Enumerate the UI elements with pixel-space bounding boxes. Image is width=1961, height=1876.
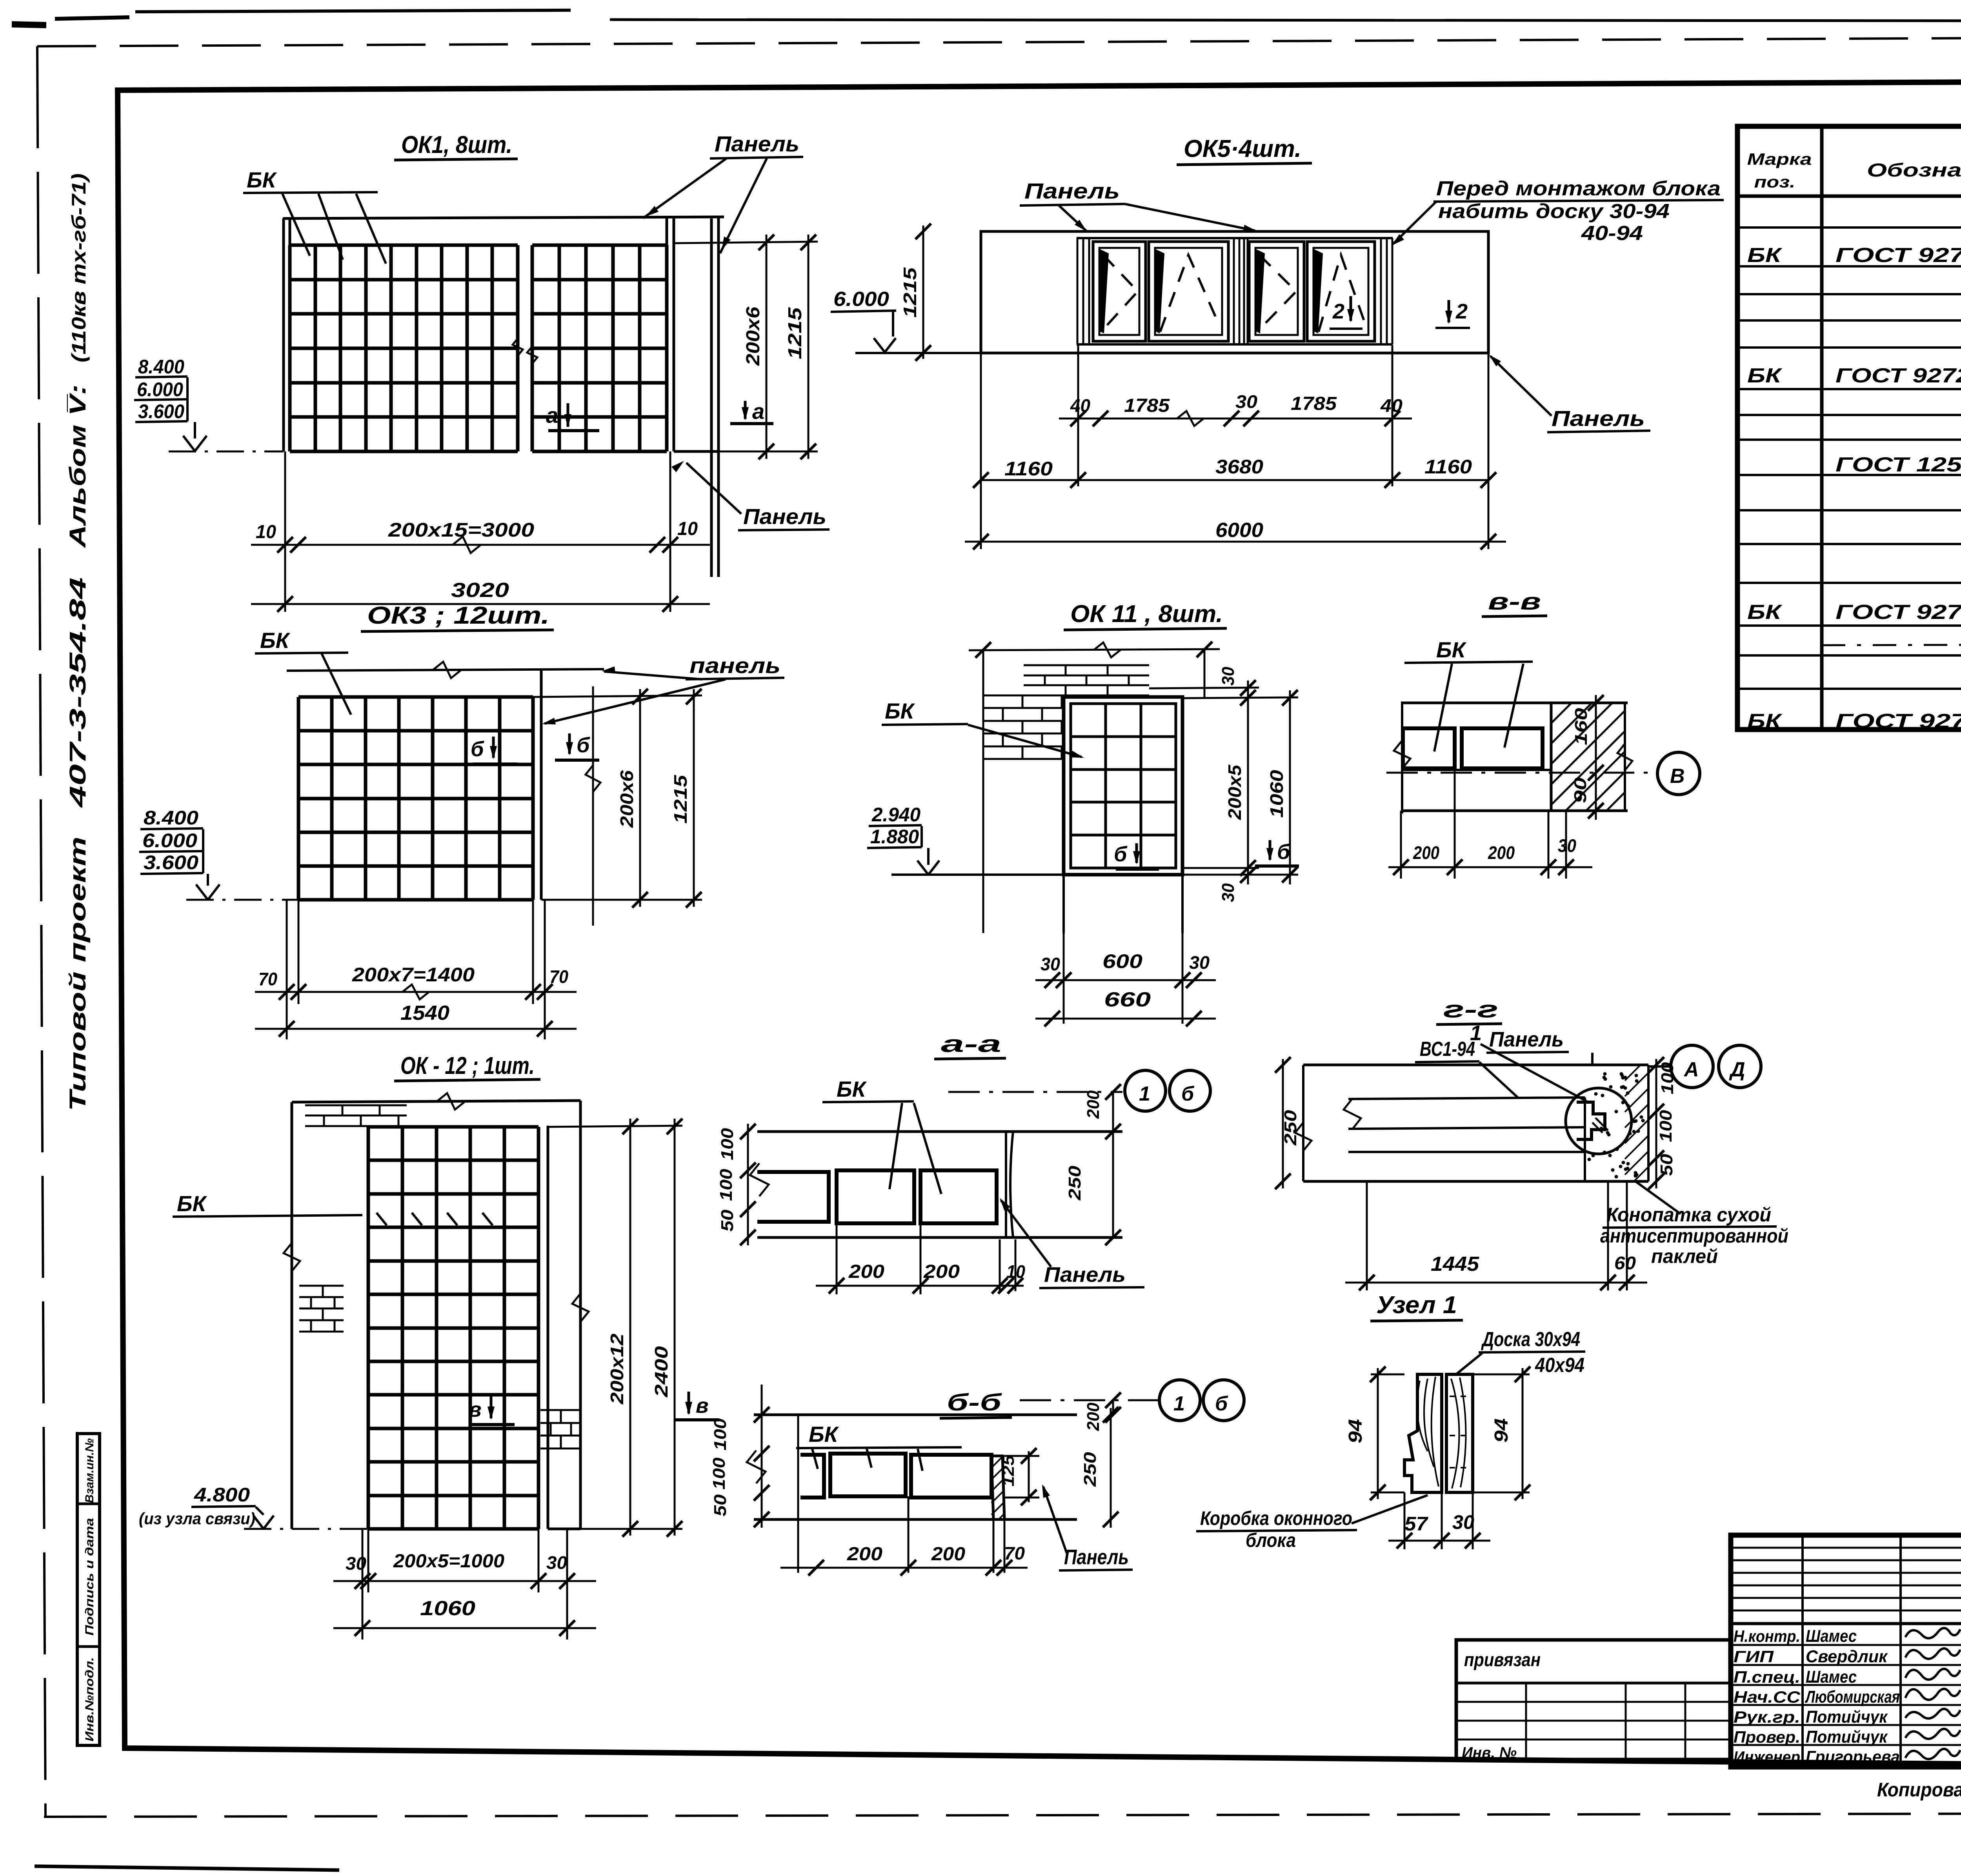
svg-text:ОК 11 , 8шт.: ОК 11 , 8шт.: [1070, 600, 1223, 628]
а-а left dim line 100 100 50: [747, 1124, 749, 1245]
svg-text:407-3-354.84: 407-3-354.84: [65, 577, 91, 808]
svg-text:30: 30: [1235, 391, 1257, 412]
доска leader: [1455, 1353, 1482, 1375]
узел 1 dim 94 right: [1522, 1368, 1524, 1499]
svg-text:БК: БК: [837, 1077, 867, 1101]
svg-text:1215: 1215: [670, 774, 691, 824]
svg-text:1: 1: [1470, 1021, 1482, 1045]
svg-text:2400: 2400: [651, 1346, 671, 1397]
svg-text:б: б: [1181, 1083, 1195, 1105]
svg-text:П.спец.: П.спец.: [1734, 1668, 1800, 1686]
svg-text:БК: БК: [1747, 364, 1783, 387]
svg-text:привязан: привязан: [1464, 1650, 1541, 1670]
svg-text:70: 70: [1004, 1543, 1025, 1563]
svg-text:200: 200: [1413, 842, 1439, 863]
svg-text:Рук.гр.: Рук.гр.: [1734, 1708, 1800, 1726]
OK5 dim row 40 1785 30 1785 40: [1059, 418, 1412, 420]
OK12 brick hatch right: [540, 1422, 580, 1424]
svg-text:Типовой проект: Типовой проект: [65, 837, 91, 1111]
в-в glass block 2 in plan: [1462, 728, 1543, 768]
svg-text:Д: Д: [1729, 1058, 1745, 1081]
OK1 bottom extension lines: [284, 451, 286, 612]
OK11 sill line left of window: [891, 873, 1064, 876]
OK12 glass block grid 5x12: [367, 1127, 370, 1529]
а-а glass block 3: [920, 1170, 997, 1223]
svg-text:30: 30: [1219, 883, 1238, 902]
OK12 dim line 1060: [333, 1627, 596, 1629]
spec table row lines: [1737, 195, 1961, 198]
svg-text:3020: 3020: [451, 579, 509, 602]
svg-text:100: 100: [717, 1168, 736, 1201]
svg-text:100: 100: [718, 1128, 737, 1160]
svg-text:70: 70: [258, 969, 277, 989]
OK11 right top extension: [1204, 649, 1206, 697]
svg-text:40х94: 40х94: [1535, 1354, 1584, 1377]
OK11 window inner rect: [1071, 704, 1176, 868]
svg-text:ГОСТ 9272-81: ГОСТ 9272-81: [1835, 710, 1961, 733]
OK3 dim line 200x6: [639, 689, 641, 907]
OK11 dim line 660: [1035, 1018, 1216, 1020]
OK3 dim line 1215: [693, 689, 695, 907]
svg-text:ГОСТ 9272-81: ГОСТ 9272-81: [1835, 364, 1961, 387]
svg-text:ОК - 12 ; 1шт.: ОК - 12 ; 1шт.: [400, 1052, 535, 1079]
OK1 Панель bottom leader: [686, 463, 741, 514]
г-г left edge: [1302, 1065, 1304, 1181]
OK5 Панель bottom leader: [1490, 356, 1552, 416]
svg-text:а: а: [546, 403, 558, 428]
а-а left break zigzag: [750, 1163, 769, 1196]
svg-text:250: 250: [1081, 1452, 1100, 1487]
б-б dim 125 right of wedge: [1028, 1451, 1030, 1502]
svg-text:100: 100: [1658, 1062, 1677, 1094]
svg-text:100: 100: [1656, 1110, 1675, 1142]
г-г sill board lines: [1348, 1097, 1585, 1099]
svg-text:30: 30: [1041, 954, 1060, 974]
а-а dim 10 at packing: [999, 1239, 1001, 1291]
svg-text:Панель: Панель: [1489, 1028, 1564, 1051]
svg-text:200: 200: [1084, 1090, 1103, 1119]
svg-text:а: а: [752, 399, 764, 424]
svg-text:200: 200: [931, 1544, 965, 1565]
б-б dim 200 near circles: [1112, 1400, 1114, 1415]
svg-text:БК: БК: [809, 1422, 839, 1447]
в-в glass block 1 in plan: [1403, 728, 1455, 768]
г-г top line: [1303, 1064, 1648, 1066]
svg-text:60: 60: [1614, 1253, 1636, 1273]
ВС1-94 leader: [1479, 1062, 1519, 1098]
OK1 right dimension extension lines: [674, 242, 818, 243]
в-в panel left edge: [1401, 703, 1403, 813]
OK12 ground dash line: [244, 1528, 368, 1530]
svg-text:Узел 1: Узел 1: [1376, 1292, 1457, 1319]
OK5 lower extension lines: [1077, 345, 1079, 486]
svg-text:30: 30: [546, 1552, 567, 1573]
svg-text:в: в: [469, 1398, 482, 1421]
svg-text:6000: 6000: [1215, 519, 1263, 542]
svg-text:ОК1, 8шт.: ОК1, 8шт.: [401, 131, 512, 158]
svg-text:Панель: Панель: [1044, 1263, 1126, 1286]
svg-text:Инв. №: Инв. №: [1462, 1744, 1517, 1761]
г-г centreline to circles А Д: [1648, 1065, 1670, 1068]
OK5 Панель leaders: [1059, 206, 1086, 231]
svg-text:Н.контр.: Н.контр.: [1734, 1627, 1800, 1645]
svg-text:2: 2: [1332, 300, 1344, 323]
scan artifact: top edge streaks: [12, 24, 46, 25]
а-а dim 200 near circles: [1112, 1092, 1114, 1132]
г-г Панель leader: [1591, 1053, 1594, 1065]
б-б left break zigzag: [747, 1450, 766, 1483]
svg-text:8.400: 8.400: [138, 356, 184, 378]
OK11 section mark б outside right: [1269, 840, 1272, 860]
svg-text:6.000: 6.000: [833, 288, 889, 311]
б-б bottom extension lines: [797, 1415, 799, 1573]
а-а circle б: [1170, 1070, 1210, 1111]
OK11 dim line 1060: [1289, 690, 1291, 884]
OK1 dim line 3020: [251, 603, 710, 605]
OK12 bottom extension lines: [367, 1529, 369, 1592]
svg-text:1785: 1785: [1291, 393, 1337, 414]
OK5 dim 1215 left: [922, 226, 924, 359]
svg-text:1160: 1160: [1004, 458, 1053, 480]
svg-text:1060: 1060: [1266, 770, 1287, 818]
svg-text:б: б: [577, 733, 590, 757]
svg-text:100: 100: [711, 1418, 730, 1450]
OK1 seam break marks: [513, 338, 523, 356]
OK11 dim line 30 200x5 30: [1247, 681, 1249, 884]
svg-text:(из узла связи): (из узла связи): [139, 1509, 255, 1528]
OK1 dim line 200x15=3000 with 10 10: [251, 544, 710, 546]
OK11 brick hatch left of window: [983, 707, 1064, 709]
svg-text:Перед монтажом блока: Перед монтажом блока: [1436, 177, 1721, 200]
svg-text:1540: 1540: [400, 1002, 449, 1024]
OK11 БК leader: [968, 725, 1082, 757]
svg-text:Конопатка сухой: Конопатка сухой: [1606, 1204, 1771, 1226]
OK5 sash 4 (top-hung, dashes): [1307, 242, 1375, 341]
svg-text:94: 94: [1345, 1419, 1366, 1443]
svg-text:1215: 1215: [785, 307, 806, 359]
spec table dash artifact 2: [1822, 644, 1961, 645]
svg-text:10: 10: [677, 519, 698, 539]
svg-text:БК: БК: [1747, 710, 1783, 733]
svg-text:200х15=3000: 200х15=3000: [388, 519, 534, 541]
svg-text:3.600: 3.600: [144, 852, 198, 873]
svg-text:БК: БК: [1436, 637, 1467, 662]
OK1 bottom panel line right of grid: [674, 450, 719, 453]
OK5 centre mullion: [1233, 238, 1235, 344]
г-г circle А: [1671, 1045, 1713, 1088]
svg-text:Панель: Панель: [1024, 178, 1120, 203]
в-в panel bottom line: [1401, 810, 1628, 812]
OK12 БК cell ticks: [377, 1213, 387, 1225]
OK12 panel bottom right segment: [548, 1528, 580, 1530]
б-б panel bottom line: [754, 1518, 1077, 1521]
svg-text:ГОСТ 12506-81: ГОСТ 12506-81: [1835, 453, 1961, 476]
OK12 section mark в outside: [688, 1392, 690, 1414]
а-а centreline dash-dot: [948, 1091, 1122, 1093]
в-в hatched wall: [1550, 703, 1553, 811]
svg-text:Доска 30х94: Доска 30х94: [1481, 1328, 1580, 1351]
svg-text:Свердлик: Свердлик: [1806, 1647, 1888, 1666]
OK5 dim row 6000: [965, 541, 1506, 543]
г-г right dim line 100 100 50: [1655, 1059, 1657, 1188]
OK3 right panel double line: [540, 669, 543, 900]
svg-text:1215: 1215: [900, 267, 920, 318]
а-а circle 1: [1125, 1070, 1166, 1111]
в-в bottom dim line 200 200 30: [1388, 866, 1592, 868]
OK12 left panel edge: [291, 1102, 293, 1529]
svg-text:панель: панель: [689, 653, 780, 678]
OK11 window outer rect: [1064, 697, 1182, 875]
svg-text:Панель: Панель: [715, 131, 799, 156]
OK11 below-window wall lines: [1062, 875, 1065, 933]
OK3 section mark б outside: [568, 733, 571, 754]
OK11 right extension lines: [1149, 688, 1259, 688]
svg-text:Подпись и дата: Подпись и дата: [83, 1518, 96, 1636]
svg-text:50: 50: [1657, 1154, 1676, 1176]
svg-text:ОК3 ; 12шт.: ОК3 ; 12шт.: [367, 602, 549, 629]
а-а right dim line 250: [1112, 1132, 1114, 1237]
г-г circle Д: [1719, 1045, 1761, 1088]
svg-text:200х12: 200х12: [607, 1334, 627, 1405]
OK3 panel top line: [287, 669, 604, 671]
svg-text:а-а: а-а: [941, 1031, 1001, 1057]
OK12 right panel edge: [579, 1101, 582, 1529]
specification table outer border: [1737, 126, 1961, 730]
svg-text:А: А: [1683, 1058, 1699, 1081]
конопатка leader: [1635, 1181, 1681, 1214]
OK1 grid left edge double line: [282, 218, 285, 451]
svg-text:Альбом V̅:: Альбом V̅:: [65, 384, 91, 549]
б-б centreline dash-dot to circles: [1020, 1399, 1158, 1401]
svg-text:3680: 3680: [1215, 456, 1263, 478]
а-а bottom extension lines: [836, 1223, 838, 1294]
svg-text:б: б: [1277, 840, 1291, 864]
svg-text:250: 250: [1065, 1165, 1084, 1201]
OK5 window top and bottom frame lines: [1077, 237, 1393, 239]
svg-text:Провер.: Провер.: [1734, 1728, 1800, 1746]
OK3 right extension lines: [533, 695, 702, 697]
svg-text:б: б: [1215, 1392, 1228, 1415]
svg-text:Панель: Панель: [1064, 1545, 1129, 1569]
spec table column lines: [1820, 126, 1824, 730]
svg-text:100: 100: [709, 1457, 729, 1490]
г-г bottom extension lines: [1366, 1181, 1368, 1290]
svg-text:600: 600: [1102, 950, 1142, 972]
г-г packing dotted zone: [1584, 1097, 1586, 1181]
OK1 grid right edge double line: [673, 218, 675, 451]
svg-text:ГИП: ГИП: [1734, 1647, 1774, 1666]
привязан table outline: [1456, 1640, 1731, 1760]
svg-text:Панель: Панель: [1552, 406, 1645, 431]
а-а glass block 2: [837, 1170, 914, 1223]
узел 1 доска profile (right piece): [1446, 1374, 1473, 1492]
svg-text:б: б: [1114, 842, 1128, 866]
б-б glass block 3: [911, 1455, 991, 1498]
svg-text:Шамес: Шамес: [1806, 1627, 1857, 1646]
svg-text:ОК5·4шт.: ОК5·4шт.: [1184, 135, 1301, 162]
OK5 window jamb lines left: [1077, 238, 1079, 344]
OK5 sash 3 (side-hung, dashes): [1249, 242, 1304, 341]
а-а bottom dim line 200 200: [816, 1285, 1024, 1287]
б-б panel top line: [754, 1414, 1077, 1416]
svg-text:г-г: г-г: [1443, 996, 1498, 1023]
OK1 section mark a outside: [744, 401, 747, 419]
title block outline: [1731, 1535, 1961, 1767]
svg-text:Взам.ин.№: Взам.ин.№: [83, 1438, 96, 1503]
а-а panel end edge and packing: [1005, 1132, 1007, 1237]
OK12 dim line 2400: [674, 1119, 676, 1536]
г-г sill left break: [1344, 1099, 1361, 1129]
б-б circle 1: [1159, 1380, 1200, 1421]
svg-text:200: 200: [1084, 1402, 1103, 1431]
svg-text:40-94: 40-94: [1581, 222, 1643, 245]
svg-text:в-в: в-в: [1488, 588, 1541, 615]
OK3 панель leaders: [604, 671, 702, 679]
left bottom strip box: [77, 1434, 100, 1745]
svg-text:БК: БК: [1747, 244, 1783, 267]
svg-text:200: 200: [1488, 842, 1515, 863]
svg-text:6.000: 6.000: [142, 830, 197, 852]
OK12 dim line 30 200x5=1000 30: [333, 1580, 596, 1582]
в-в dim line 160 90: [1595, 695, 1597, 820]
OK3 dim line 1540: [255, 1028, 577, 1030]
svg-text:660: 660: [1104, 988, 1151, 1011]
svg-text:паклей: паклей: [1651, 1245, 1718, 1267]
svg-text:4.800: 4.800: [194, 1484, 250, 1506]
outer dashed border: [37, 36, 1961, 46]
svg-text:БК: БК: [1747, 601, 1783, 624]
scan artifact: bottom-left edge streak: [35, 1866, 339, 1870]
г-г bottom line: [1303, 1180, 1648, 1183]
а-а glass block cut at left: [757, 1172, 829, 1222]
OK11 glass block grid 3x5: [1070, 704, 1072, 868]
OK1 panel right edge double line: [710, 218, 713, 577]
OK1 panel top edge: [283, 217, 724, 218]
svg-text:1060: 1060: [420, 1597, 475, 1620]
svg-text:200: 200: [923, 1261, 960, 1282]
strip second vertical line: [123, 1434, 126, 1741]
svg-text:поз.: поз.: [1754, 173, 1795, 191]
svg-text:10: 10: [256, 522, 276, 542]
OK3 dim line 70 200x7=1400 70: [255, 991, 577, 993]
OK1 elevation connector and arrow: [186, 377, 189, 421]
г-г right edge: [1647, 1065, 1650, 1181]
svg-text:90: 90: [1571, 777, 1590, 803]
svg-text:Коробка оконного: Коробка оконного: [1200, 1507, 1352, 1529]
б-б circle б: [1203, 1380, 1244, 1421]
svg-text:8.400: 8.400: [144, 807, 198, 829]
а-а panel bottom line: [757, 1236, 1122, 1239]
svg-text:1: 1: [1139, 1083, 1150, 1105]
svg-text:250: 250: [1281, 1110, 1300, 1146]
svg-text:Любомирская: Любомирская: [1805, 1687, 1900, 1707]
svg-text:200х5: 200х5: [1224, 764, 1245, 820]
привязан column lines: [1525, 1683, 1527, 1760]
OK12 grid right double line: [547, 1126, 549, 1529]
а-а БК leader slants: [890, 1103, 902, 1189]
svg-text:57: 57: [1404, 1513, 1428, 1535]
svg-text:1160: 1160: [1424, 456, 1472, 478]
г-г left dim line 250: [1282, 1059, 1284, 1188]
svg-text:200: 200: [847, 1544, 882, 1565]
svg-text:30: 30: [346, 1553, 366, 1574]
strip divider 1: [77, 1503, 100, 1505]
OK11 dim line 30 600 30: [1035, 979, 1216, 981]
OK11 bottom extension lines: [1063, 933, 1065, 1024]
svg-text:50: 50: [718, 1209, 737, 1232]
svg-text:БК: БК: [260, 628, 291, 653]
OK12 right extension lines: [548, 1126, 682, 1127]
б-б right dim line 250: [1110, 1408, 1112, 1528]
OK3 section trace line б-б: [592, 686, 594, 926]
б-б left dim line 100 100 50: [761, 1385, 763, 1528]
strip divider 2: [77, 1645, 100, 1648]
узел 1 bottom dim 57 30: [1404, 1492, 1406, 1549]
svg-text:б: б: [471, 737, 484, 761]
svg-text:125: 125: [999, 1455, 1017, 1487]
а-а Панель leader: [1001, 1200, 1051, 1267]
OK1 ground dash-dot line left: [169, 451, 284, 453]
svg-text:70: 70: [549, 966, 568, 987]
svg-text:1445: 1445: [1431, 1253, 1479, 1276]
svg-text:Панель: Панель: [743, 504, 826, 529]
svg-text:160: 160: [1572, 708, 1591, 745]
svg-text:Григорьева: Григорьева: [1806, 1747, 1900, 1767]
OK11 top dim line: [969, 649, 1220, 650]
svg-text:50: 50: [711, 1494, 730, 1516]
OK5 sash 2 (top-hung, dashes): [1149, 242, 1228, 341]
svg-text:Нач.СС: Нач.СС: [1734, 1688, 1801, 1706]
svg-text:200х5=1000: 200х5=1000: [393, 1551, 504, 1572]
svg-text:Копировал Грубник: Копировал Грубник: [1877, 1779, 1961, 1801]
OK12 dim line 200x12: [629, 1119, 631, 1536]
svg-text:10: 10: [1006, 1261, 1025, 1282]
svg-text:200х6: 200х6: [743, 307, 764, 366]
б-б glass block 2: [830, 1454, 906, 1496]
svg-text:БК: БК: [177, 1191, 207, 1216]
svg-text:30: 30: [1558, 835, 1576, 856]
г-г node circle detail 1: [1566, 1088, 1632, 1154]
OK12 brick hatch top-left: [305, 1115, 407, 1117]
svg-text:набить доску 30-94: набить доску 30-94: [1438, 200, 1670, 223]
svg-text:Марка: Марка: [1747, 150, 1812, 168]
привязан thin rows: [1456, 1701, 1731, 1703]
OK12 brick hatch mid-left: [299, 1296, 344, 1298]
в-в line under blocks: [1401, 769, 1551, 771]
svg-text:Инв.№подл.: Инв.№подл.: [83, 1657, 96, 1741]
OK3 glass block grid 7x6: [297, 697, 300, 900]
svg-text:94: 94: [1491, 1418, 1512, 1443]
svg-text:БК: БК: [247, 167, 277, 192]
svg-text:200: 200: [848, 1261, 884, 1282]
OK5 panel outline: [981, 231, 1488, 353]
б-б bottom dim line 200 200 70: [780, 1567, 1028, 1569]
svg-text:антисептированной: антисептированной: [1600, 1225, 1788, 1247]
б-б БК leader slants: [812, 1449, 818, 1469]
svg-text:БК: БК: [885, 699, 915, 723]
svg-text:3.600: 3.600: [138, 400, 184, 422]
svg-text:Потийчук: Потийчук: [1806, 1707, 1888, 1727]
OK1 БК leader slants: [282, 194, 310, 256]
svg-text:(110кв тх-гб-71): (110кв тх-гб-71): [68, 173, 90, 362]
OK1 glass block grid right section 5x6: [531, 245, 534, 451]
svg-text:40: 40: [1070, 395, 1090, 416]
узел 1 dim 94 left: [1377, 1368, 1379, 1499]
svg-text:блока: блока: [1246, 1529, 1296, 1551]
OK5 section mark г outside right: [1448, 300, 1450, 322]
svg-text:30: 30: [1189, 952, 1210, 973]
svg-text:2.940: 2.940: [871, 804, 920, 826]
